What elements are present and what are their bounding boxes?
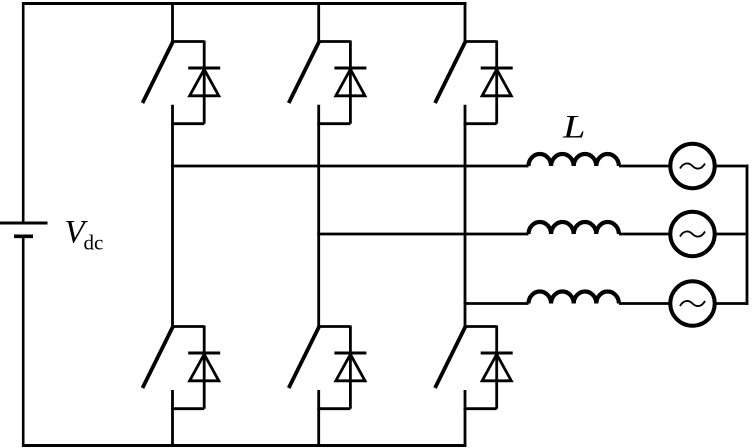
svg-text:dc: dc [84,231,104,255]
svg-text:L: L [562,110,586,146]
